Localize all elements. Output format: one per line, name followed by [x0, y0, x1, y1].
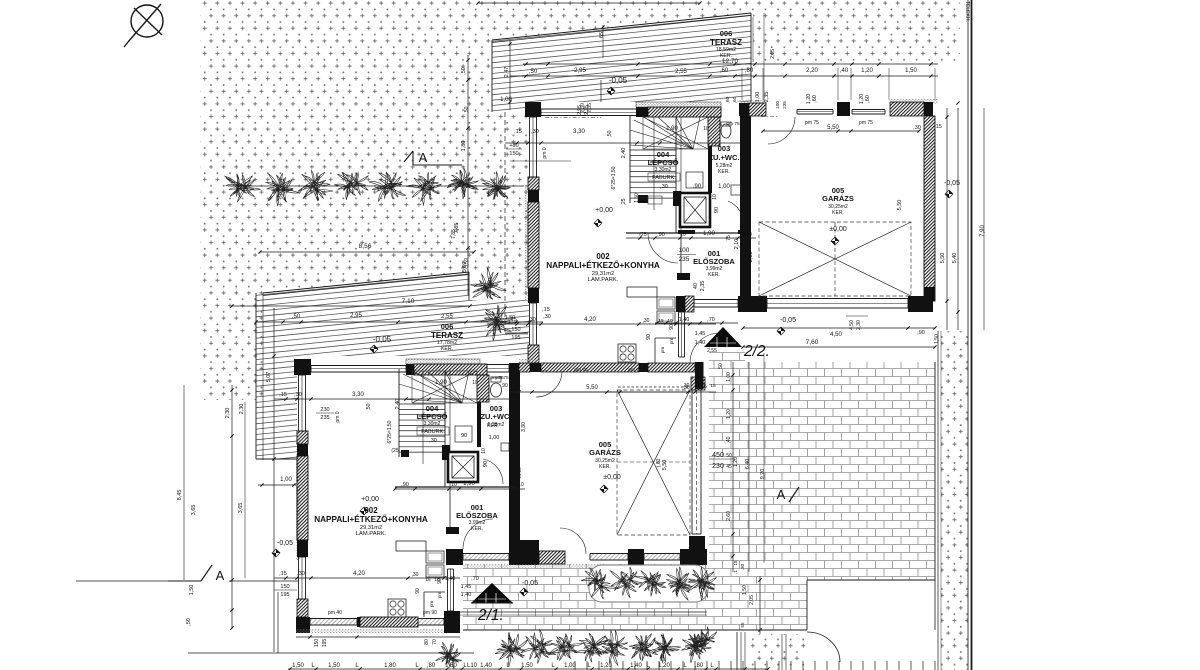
svg-text:2,55: 2,55: [675, 69, 687, 75]
room label 003 wc unit 2/2: [708, 144, 739, 175]
svg-text:pm 40: pm 40: [328, 610, 342, 616]
svg-text:,15: ,15: [514, 129, 522, 135]
svg-text:.90: .90: [693, 184, 702, 190]
svg-text:FABURK.: FABURK.: [652, 175, 676, 181]
svg-text:70: 70: [432, 639, 438, 645]
svg-text:2,35: 2,35: [700, 281, 706, 292]
svg-text:1,90: 1,90: [435, 380, 447, 386]
north compass symbol: [124, 4, 163, 47]
dimension texts above garage wall: [755, 92, 871, 105]
svg-text:3,30: 3,30: [573, 129, 585, 135]
svg-text:2/2.: 2/2.: [743, 343, 770, 360]
svg-text:1,40: 1,40: [630, 663, 642, 669]
svg-text:,15: ,15: [699, 384, 707, 390]
svg-text:55: 55: [740, 622, 745, 628]
unit 2/1 elevator shaft: [448, 452, 478, 482]
svg-text:1,50: 1,50: [189, 585, 195, 596]
unit 2/1 label: [477, 607, 504, 624]
svg-text:LÉPCSŐ: LÉPCSŐ: [417, 412, 448, 421]
svg-text:1,80: 1,80: [384, 663, 396, 669]
svg-text:,15: ,15: [279, 571, 287, 577]
terrace 006 of unit 2/1 (wood deck hatch): [256, 262, 529, 488]
svg-text:150: 150: [314, 639, 320, 648]
svg-text:1,00: 1,00: [718, 184, 730, 190]
svg-text:10: 10: [746, 232, 752, 238]
unit 2/2 stair core walls: [626, 115, 746, 233]
svg-text:,80: ,80: [745, 68, 754, 74]
unit 2/2 elevator shaft: [680, 193, 710, 227]
upper left terrace dimension verticals: [577, 80, 601, 115]
room label 004 lepcso unit 2/1: [417, 404, 449, 444]
svg-text:4,20: 4,20: [584, 317, 596, 323]
bottom overall dimension line: [288, 663, 770, 670]
svg-text:,30: ,30: [682, 385, 690, 391]
unit 2/1 staircase treads: [399, 371, 477, 464]
svg-text:235: 235: [782, 101, 787, 109]
right side vertical dims of courtyard: [707, 348, 724, 369]
svg-text:1,80: 1,80: [461, 141, 467, 152]
svg-text:2,30: 2,30: [856, 320, 862, 330]
svg-text:90: 90: [483, 461, 489, 467]
svg-text:006: 006: [441, 322, 454, 331]
svg-text:pm 0: pm 0: [542, 147, 548, 158]
svg-text:A: A: [777, 487, 786, 502]
unit 2/2 garage west wall: [740, 116, 751, 301]
svg-text:,50: ,50: [607, 130, 613, 137]
svg-text:10: 10: [712, 194, 718, 200]
svg-text:,10: ,10: [514, 384, 521, 390]
svg-text:100: 100: [775, 101, 780, 109]
dimension courtyard middle line: [460, 612, 707, 615]
svg-text:,30: ,30: [531, 129, 539, 135]
svg-text:ELŐSZOBA: ELŐSZOBA: [693, 257, 735, 266]
svg-text:+0,00: +0,00: [595, 207, 613, 214]
room label 005 garazs unit 2/1: [589, 440, 621, 470]
garage right outside dimension lines: [940, 101, 986, 330]
svg-text:1,50: 1,50: [742, 585, 748, 595]
svg-text:pm 75: pm 75: [726, 121, 740, 127]
svg-text:,80: ,80: [427, 663, 436, 669]
dimension row mid lower unit: [258, 375, 525, 491]
svg-text:5,50: 5,50: [586, 385, 598, 391]
vertical dimension line left of upper unit: [454, 55, 470, 295]
svg-text:GARÁZS: GARÁZS: [822, 194, 854, 203]
svg-text:15: 15: [425, 577, 431, 583]
svg-text:150: 150: [280, 584, 289, 590]
svg-text:KÉR.: KÉR.: [487, 422, 499, 429]
unit 2/1 interior partition hall: [446, 371, 562, 550]
svg-text:TELEKH.: TELEKH.: [964, 1, 970, 22]
svg-text:1,40: 1,40: [445, 576, 456, 582]
svg-text:1,00: 1,00: [726, 372, 732, 382]
svg-text:2,40: 2,40: [621, 148, 627, 159]
svg-text:pm 75: pm 75: [859, 120, 873, 126]
svg-text:2,65: 2,65: [770, 49, 776, 59]
svg-text:1,20: 1,20: [733, 457, 739, 467]
svg-text:90: 90: [714, 207, 720, 213]
svg-text:,15: ,15: [542, 307, 550, 313]
dashed plot division line x=505: [504, 112, 506, 332]
svg-text:,60: ,60: [732, 96, 738, 103]
bottom left corner boundary lines: [76, 344, 474, 653]
svg-text:6,40: 6,40: [745, 459, 751, 470]
svg-text:150: 150: [511, 327, 520, 333]
unit 2/1 kitchen counter and stove: [388, 541, 445, 617]
svg-text:LÉPCSŐ: LÉPCSŐ: [648, 158, 679, 167]
svg-text:TERASZ: TERASZ: [431, 331, 463, 340]
lower right fence ticks: [575, 661, 935, 670]
svg-text:,40: ,40: [840, 68, 849, 74]
svg-text:15: 15: [710, 383, 716, 389]
svg-text:006: 006: [720, 29, 733, 38]
driveway outline lines: [463, 362, 935, 630]
unit 2/2 left exterior wall: [525, 117, 540, 363]
svg-text:1,40: 1,40: [461, 592, 472, 598]
svg-text:3,65: 3,65: [238, 503, 244, 514]
svg-text:10: 10: [472, 380, 478, 386]
dimension bottom inside lower unit: [274, 571, 479, 607]
svg-text:7,10: 7,10: [402, 298, 415, 305]
section marker A right: [777, 487, 799, 502]
svg-text:2,55: 2,55: [707, 348, 717, 354]
svg-text:pm 75: pm 75: [495, 375, 509, 381]
brick paved courtyard / driveway: [463, 352, 935, 630]
unit 2/2 garage bottom wall: [743, 296, 933, 312]
svg-text:,70: ,70: [471, 576, 479, 582]
dimension row inside lower unit below top wall: [274, 380, 515, 454]
svg-text:10: 10: [481, 448, 487, 454]
svg-text:,50: ,50: [292, 314, 301, 320]
room label 006 terasz unit 2/1: [431, 322, 463, 352]
dimension row inside upper unit below top wall: [505, 103, 745, 161]
lower left vertical lines near courtyard entry: [737, 632, 840, 670]
room label 005 garazs unit 2/2: [822, 186, 854, 216]
svg-text:50: 50: [718, 363, 724, 369]
svg-text:2,10: 2,10: [748, 252, 754, 263]
svg-text:pm: pm: [669, 338, 674, 345]
svg-text:,40: ,40: [726, 436, 732, 443]
unit 2/2 entrance porch walls: [669, 296, 749, 357]
svg-text:6*25=1,50: 6*25=1,50: [611, 166, 617, 189]
svg-text:GARÁZS: GARÁZS: [589, 448, 621, 457]
unit 2/2 label: [743, 343, 770, 360]
svg-text:2,40: 2,40: [395, 399, 401, 410]
stippled patch bottom right of driveway: [750, 634, 807, 670]
room label 001 eloszoba unit 2/1: [456, 503, 498, 532]
svg-text:1,00: 1,00: [489, 435, 500, 441]
svg-text:2,20: 2,20: [806, 68, 818, 74]
svg-text:,30: ,30: [660, 184, 668, 190]
svg-text:,30: ,30: [297, 571, 305, 577]
svg-text:65: 65: [599, 32, 605, 38]
svg-text:,50: ,50: [366, 403, 372, 410]
room label 003 wc unit 2/1: [480, 404, 527, 441]
unit 2/2 garage east wall hatched: [924, 116, 935, 301]
svg-text:1,40: 1,40: [695, 340, 706, 346]
svg-text:KER.: KER.: [708, 272, 720, 278]
terrace 006 of unit 2/2 (wood deck hatch): [492, 10, 751, 143]
svg-text:1,50: 1,50: [905, 68, 917, 74]
small shrub bottom left of courtyard: [436, 627, 717, 670]
svg-text:NAPPALI+ÉTKEZŐ+KONYHA: NAPPALI+ÉTKEZŐ+KONYHA: [546, 259, 660, 270]
svg-text:,60: ,60: [720, 68, 729, 74]
svg-text:7,60: 7,60: [806, 339, 819, 346]
svg-text:1,40: 1,40: [480, 663, 492, 669]
svg-text:7,90: 7,90: [980, 225, 986, 237]
dimension row lower garage top: [530, 367, 706, 470]
svg-text:1,90: 1,90: [703, 231, 715, 237]
svg-text:4,50: 4,50: [849, 320, 855, 330]
svg-text:90: 90: [461, 433, 467, 439]
svg-text:NAPPALI+ÉTKEZŐ+KONYHA: NAPPALI+ÉTKEZŐ+KONYHA: [314, 513, 428, 524]
svg-text:,60: ,60: [865, 95, 871, 103]
svg-text:,30: ,30: [412, 572, 419, 578]
svg-text:pm: pm: [660, 347, 665, 354]
svg-text:FABURK.: FABURK.: [421, 429, 445, 435]
svg-text:2,35: 2,35: [584, 105, 590, 115]
dimension below upper garage: [741, 316, 940, 349]
svg-text:pm 75: pm 75: [628, 367, 642, 373]
stippled ground cover area (main): [200, 0, 960, 400]
svg-text:2,60: 2,60: [726, 511, 732, 521]
svg-text:(,60: (,60: [656, 458, 662, 467]
svg-text:KER.: KER.: [599, 464, 611, 470]
svg-text:4,20: 4,20: [353, 571, 365, 577]
svg-text:2,47: 2,47: [504, 67, 510, 78]
svg-text:,90: ,90: [657, 232, 665, 238]
room label 002 nappali unit 2/2: [546, 252, 660, 283]
svg-text:235: 235: [679, 256, 690, 263]
room label 006 terasz unit 2/2: [710, 29, 742, 65]
svg-text:7,85: 7,85: [451, 229, 457, 239]
svg-text:5,40: 5,40: [952, 253, 958, 264]
svg-text:±0,00: ±0,00: [829, 226, 847, 233]
svg-text:A: A: [216, 568, 225, 583]
unit 2/2 garage parking cross marking: [759, 222, 911, 296]
svg-text:2,95: 2,95: [577, 105, 583, 115]
svg-text:TERASZ: TERASZ: [710, 38, 742, 47]
svg-text:5,50: 5,50: [662, 460, 668, 471]
unit 2/1 left exterior wall: [296, 375, 310, 633]
unit 2/1 garage east wall with door: [689, 377, 705, 565]
svg-text:2,05: 2,05: [749, 595, 755, 605]
svg-text:pm: pm: [429, 601, 434, 608]
svg-text:,30: ,30: [643, 318, 650, 324]
svg-text:,50: ,50: [461, 67, 467, 75]
svg-text:3,30m2: 3,30m2: [424, 421, 441, 427]
svg-text:2,30: 2,30: [239, 404, 245, 415]
svg-text:,30: ,30: [913, 125, 921, 131]
vertical dimension terrace left: [500, 40, 512, 110]
svg-text:195: 195: [511, 335, 520, 341]
svg-text:,50: ,50: [464, 106, 470, 113]
unit 2/2 kitchen counter and stove: [618, 287, 676, 363]
svg-text:150: 150: [509, 151, 518, 157]
unit 2/2 entrance arrow triangle: [704, 327, 742, 347]
unit 2/1 level marks: [272, 335, 621, 596]
extension lines garage top wall to dim line: [742, 17, 935, 100]
svg-text:1,00: 1,00: [280, 477, 292, 483]
svg-text:(25: (25: [391, 448, 398, 454]
svg-text:1,40: 1,40: [679, 317, 690, 323]
svg-text:2,95: 2,95: [574, 68, 586, 74]
shrub bed in courtyard: [581, 565, 716, 602]
svg-text:,60: ,60: [725, 96, 731, 103]
svg-text:,30: ,30: [740, 563, 745, 570]
svg-text:KER.: KER.: [471, 526, 483, 532]
unit 2/2 top wall with windows and lintels: [525, 102, 721, 118]
svg-text:1,20: 1,20: [726, 409, 732, 419]
svg-text:-0,05: -0,05: [780, 317, 796, 324]
dimension right of unit 2/2 hall: [677, 235, 754, 312]
svg-text:90: 90: [502, 383, 508, 389]
dimension bottom unit 2/1 lower edge: [296, 610, 460, 647]
svg-text:2,95: 2,95: [350, 313, 362, 319]
shrub cluster right of lower terrace: [470, 268, 513, 341]
svg-text:90: 90: [669, 324, 675, 330]
svg-text:450: 450: [712, 452, 724, 459]
svg-text:+80: +80: [509, 143, 518, 149]
svg-text:ZU.+WC.: ZU.+WC.: [708, 153, 739, 162]
svg-text:002: 002: [596, 252, 610, 261]
svg-text:3,30m2: 3,30m2: [655, 167, 672, 173]
svg-text:,70: ,70: [707, 317, 715, 323]
svg-text:3,65: 3,65: [191, 505, 197, 516]
vertical dimension line far left lower: [177, 308, 276, 652]
shrub row bottom: [495, 629, 711, 666]
svg-text:ZU.+WC.: ZU.+WC.: [480, 412, 511, 421]
svg-text:1,50: 1,50: [445, 663, 457, 669]
svg-text:1,50: 1,50: [521, 663, 533, 669]
svg-text:5,50: 5,50: [897, 200, 903, 211]
svg-text:1,50: 1,50: [934, 334, 940, 344]
unit 2/1 stair core walls: [395, 369, 515, 487]
svg-text:1,50: 1,50: [292, 663, 304, 669]
svg-text:pm: pm: [437, 592, 442, 599]
svg-text:80: 80: [424, 639, 430, 645]
dimension line top terrace: [464, 1, 938, 113]
svg-text:9,20: 9,20: [760, 469, 766, 480]
svg-text:,80: ,80: [695, 663, 704, 669]
svg-text:2,55: 2,55: [441, 314, 453, 320]
svg-text:,30: ,30: [429, 438, 437, 444]
svg-text:195: 195: [280, 592, 289, 598]
svg-text:10: 10: [434, 577, 440, 583]
section marker A lower left: [168, 565, 299, 583]
unit 2/1 top wall right section: [487, 365, 509, 373]
room label 004 lepcso unit 2/2: [648, 150, 680, 190]
svg-text:1,20: 1,20: [658, 663, 670, 669]
svg-text:-0,05: -0,05: [522, 580, 538, 587]
svg-text:003: 003: [718, 144, 731, 153]
svg-text:,90: ,90: [739, 243, 746, 249]
shared wall band between unit 2/2 and unit 2/1 garage: [509, 359, 704, 389]
svg-text:,60: ,60: [812, 95, 818, 103]
svg-text:1,45: 1,45: [461, 584, 472, 590]
svg-text:5,07: 5,07: [266, 372, 272, 383]
svg-text:,30: ,30: [294, 392, 302, 398]
svg-text:KER.: KER.: [441, 346, 453, 352]
svg-text:pm 75: pm 75: [574, 367, 588, 373]
svg-text:A: A: [419, 150, 428, 165]
room label 002 nappali unit 2/1: [314, 506, 428, 537]
svg-text:-0,05: -0,05: [277, 540, 293, 547]
unit 2/1 top wall: [294, 359, 487, 375]
svg-text:10: 10: [518, 482, 524, 488]
svg-text:15: 15: [733, 560, 738, 566]
stippled strip along right property line: [938, 331, 968, 670]
svg-text:pm 75: pm 75: [805, 120, 819, 126]
svg-text:100: 100: [740, 304, 746, 313]
svg-text:2/1.: 2/1.: [477, 607, 504, 624]
room label 001 eloszoba unit 2/2: [693, 249, 735, 278]
svg-text:,1: ,1: [733, 570, 738, 574]
unit 2/1 wc fixtures: [483, 375, 509, 484]
svg-text:100: 100: [679, 247, 690, 254]
svg-text:LAM.PARK.: LAM.PARK.: [356, 531, 387, 537]
svg-text:45: 45: [726, 464, 732, 470]
svg-text:235: 235: [320, 415, 329, 421]
unit 2/1 eloszoba east wall: [437, 569, 460, 633]
left upper boundary vertical lines x=200: [199, 0, 201, 400]
unit 2/2 level marks: [594, 76, 960, 335]
dimension line upper main horizontal: [510, 68, 938, 78]
svg-text:KER.: KER.: [718, 169, 730, 175]
svg-text:8,45: 8,45: [177, 490, 183, 501]
svg-text:1,00: 1,00: [564, 663, 576, 669]
unit 2/1 garage west wall: [509, 372, 520, 549]
svg-text:230: 230: [712, 463, 724, 470]
svg-text:5,59: 5,59: [464, 258, 470, 268]
svg-text:L10: L10: [467, 663, 478, 669]
shrub row along upper left hedge line: [225, 168, 524, 206]
svg-text:1,50: 1,50: [634, 193, 640, 203]
svg-text:,15: ,15: [279, 392, 287, 398]
svg-text:-0,05: -0,05: [609, 76, 628, 85]
dimension row mid upper unit: [611, 121, 756, 240]
unit 2/2 interior partition hall: [626, 230, 746, 363]
svg-text:6*25=1,50: 6*25=1,50: [387, 420, 393, 443]
svg-text:±0,00: ±0,00: [603, 474, 621, 481]
svg-text:1,45: 1,45: [695, 331, 706, 337]
svg-text:40: 40: [693, 283, 699, 289]
dimension garage interior top: [761, 120, 941, 210]
svg-text:10: 10: [680, 232, 686, 238]
svg-text:1,50: 1,50: [505, 315, 516, 321]
svg-text:5,50: 5,50: [827, 125, 839, 131]
svg-text:2,35: 2,35: [764, 92, 770, 103]
svg-text:90: 90: [646, 334, 652, 340]
svg-text:1,90: 1,90: [463, 481, 475, 487]
svg-text:195: 195: [322, 639, 328, 648]
svg-text:ELŐSZOBA: ELŐSZOBA: [456, 511, 498, 520]
svg-text:230: 230: [320, 407, 329, 413]
property boundary line (telekhatar) right side: [964, 0, 972, 670]
svg-text:,50: ,50: [529, 69, 538, 75]
svg-text:LAM.PARK.: LAM.PARK.: [588, 277, 619, 283]
svg-text:pm 0: pm 0: [335, 411, 341, 422]
svg-text:1,50: 1,50: [328, 663, 340, 669]
svg-text:10: 10: [703, 126, 709, 132]
svg-text:4,50: 4,50: [830, 332, 842, 338]
unit 2/2 wc fixtures: [721, 122, 744, 227]
svg-text:90: 90: [415, 588, 421, 594]
svg-text:(25: (25: [639, 232, 646, 238]
svg-text:1,00: 1,00: [755, 92, 761, 103]
svg-text:1,20: 1,20: [861, 68, 873, 74]
svg-text:1,00: 1,00: [500, 97, 512, 103]
svg-text:75: 75: [726, 235, 732, 241]
